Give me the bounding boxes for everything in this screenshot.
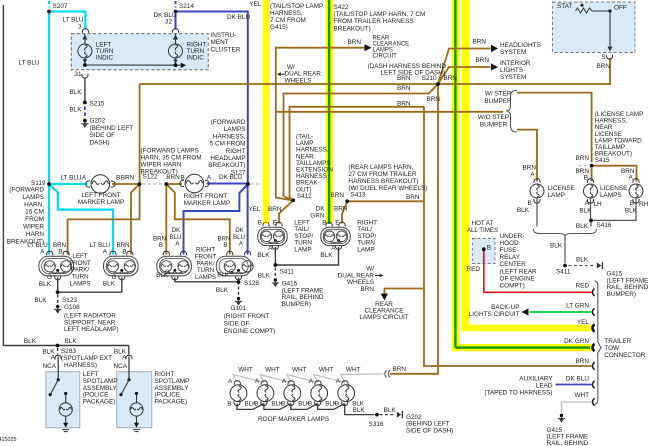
svg-text:(TAIL/STOP LAMP HARN, 7 CM: (TAIL/STOP LAMP HARN, 7 CM [334, 11, 426, 18]
svg-text:YEL: YEL [577, 319, 590, 326]
svg-text:BRN: BRN [473, 38, 487, 45]
arrow to rear clearance lamps circuit [365, 44, 372, 51]
svg-text:LIGHTS: LIGHTS [500, 67, 523, 74]
ground G108 [56, 305, 59, 308]
svg-text:BRN: BRN [597, 63, 611, 70]
svg-text:LEAD: LEAD [536, 383, 553, 390]
svg-text:AUXILIARY: AUXILIARY [519, 376, 553, 383]
wire LT BLU S207 to cluster pin 3 [49, 12, 85, 30]
svg-text:LT BLU: LT BLU [62, 17, 83, 24]
svg-text:BLK: BLK [384, 407, 397, 414]
wire BLK left edge from top to S283 [3, 5, 128, 346]
wire LT BLU dashed stub above S207 [48, 1, 50, 8]
svg-text:W/ STEP: W/ STEP [485, 91, 511, 98]
svg-text:WIPER HARN: WIPER HARN [141, 162, 182, 169]
svg-text:YEL: YEL [248, 206, 261, 213]
svg-text:BRN: BRN [397, 75, 411, 82]
ground G202 (behind dash) [83, 119, 87, 123]
lamp: license lamp RH [629, 184, 643, 198]
svg-text:BREAKOUT): BREAKOUT) [208, 162, 245, 169]
svg-text:BUMPER: BUMPER [480, 122, 508, 129]
svg-text:B: B [159, 242, 163, 249]
svg-text:ALL TIMES: ALL TIMES [467, 227, 498, 234]
svg-text:B: B [322, 219, 326, 226]
svg-text:BRN: BRN [576, 358, 590, 365]
svg-text:SIDE OF: SIDE OF [90, 132, 116, 139]
svg-text:RIGHT: RIGHT [226, 148, 246, 155]
arrow to headlights system [491, 45, 498, 52]
node S214 [174, 10, 178, 14]
svg-text:(FORWARD LAMPS: (FORWARD LAMPS [141, 148, 199, 155]
trailer pin DK GRN [592, 344, 594, 352]
svg-text:S215: S215 [90, 100, 105, 107]
headlamp switch (STAT) box top right [553, 2, 636, 53]
svg-text:BLK: BLK [69, 89, 82, 96]
inline connector WHT/BRN [385, 370, 390, 378]
svg-text:A: A [309, 378, 314, 385]
svg-text:BLK: BLK [576, 257, 589, 264]
node S122 a [138, 182, 142, 186]
svg-text:B: B [630, 200, 634, 207]
svg-text:B: B [335, 400, 339, 407]
svg-text:B: B [180, 175, 184, 182]
lamp: right turn indicator [169, 44, 183, 58]
svg-text:B: B [281, 400, 285, 407]
svg-text:G202: G202 [90, 118, 106, 125]
instrument cluster box [71, 34, 208, 70]
svg-text:BRN: BRN [397, 101, 411, 108]
wire BRN S210 diag to interior lights system [438, 67, 491, 84]
svg-text:27 CM FROM TRAILER: 27 CM FROM TRAILER [348, 171, 416, 178]
wire BRN S210 down to roof marker lamps connector [390, 84, 438, 374]
svg-text:SIDE OF DASH): SIDE OF DASH) [406, 427, 453, 434]
svg-text:CONNECTOR: CONNECTOR [604, 352, 645, 359]
wire BRN S412 to left tail lamp pin E [279, 200, 293, 223]
svg-text:BRN: BRN [397, 85, 411, 92]
wire DK BLU auxiliary lead [556, 384, 592, 386]
wire BLK roof marker lamps ground chain [237, 404, 264, 410]
svg-text:5 CM FROM: 5 CM FROM [210, 141, 246, 148]
wire BRN rear clearance circuit feed w/ dual rear wheels [276, 48, 365, 201]
wire BRN S413 tee [347, 200, 424, 202]
svg-text:LEFT HEADLAMP): LEFT HEADLAMP) [64, 326, 119, 333]
wire DK BLU S127 to right park lamps box D pin A [247, 184, 249, 255]
svg-text:BLK: BLK [625, 208, 638, 215]
connector to G415 (license grounds) [597, 263, 602, 269]
left front park/turn lamps box B [104, 256, 139, 276]
arrow inside cluster [181, 63, 186, 68]
svg-text:BLK: BLK [65, 338, 78, 345]
svg-text:BLK: BLK [217, 272, 230, 279]
wire BLK dashed S283 to left spotlamp pin A [57, 348, 59, 355]
svg-text:(TAIL/STOP LAMP: (TAIL/STOP LAMP [270, 3, 323, 10]
node S316 [375, 413, 379, 417]
svg-text:LICENSE: LICENSE [600, 185, 627, 192]
svg-text:ENGINE COMPT): ENGINE COMPT) [224, 328, 275, 335]
trailer tow connector bracket [595, 281, 602, 405]
svg-text:BACK-UP: BACK-UP [491, 304, 519, 311]
svg-text:LAMPS: LAMPS [70, 281, 91, 288]
svg-text:TOW: TOW [604, 345, 620, 352]
svg-text:BLK: BLK [517, 207, 530, 214]
svg-text:W/O STEP: W/O STEP [478, 114, 509, 121]
svg-text:COMPT): COMPT) [500, 283, 525, 290]
YEL band into left tail pin B [264, 223, 268, 225]
svg-text:B: B [254, 400, 258, 407]
svg-text:BRN: BRN [361, 286, 375, 293]
svg-text:S207: S207 [53, 3, 68, 10]
svg-text:LT BLU: LT BLU [18, 60, 39, 67]
svg-text:S413: S413 [351, 191, 366, 198]
svg-text:A: A [282, 378, 287, 385]
svg-text:B: B [227, 400, 231, 407]
svg-text:RELAY: RELAY [500, 254, 521, 261]
trailer pin BRN [592, 362, 594, 370]
svg-text:RAIL, BEHIND: RAIL, BEHIND [547, 440, 589, 446]
node S128 [237, 280, 241, 284]
trailer pin WHT [592, 398, 594, 406]
svg-text:BRN: BRN [268, 206, 282, 213]
node S411 left [274, 263, 278, 267]
wire BRN S122 to park box C pin B [165, 184, 167, 255]
svg-text:LT BLU: LT BLU [90, 242, 110, 249]
wire BLK left tail lamp A to S411 [274, 247, 276, 265]
wire BRN S415 to license lamp LH pin B [591, 168, 593, 182]
wire WHT roof marker lamps feed [233, 375, 264, 383]
arrow w/ dual rear wheels (left) [278, 73, 285, 75]
svg-text:415025: 415025 [0, 437, 17, 443]
svg-text:32: 32 [165, 18, 173, 25]
svg-text:S415: S415 [595, 157, 610, 164]
lamp: roof marker lamp 1 [230, 385, 247, 402]
svg-text:MARKER LAMP: MARKER LAMP [78, 199, 125, 206]
wire BRN w/ step bumper to S415 [517, 93, 592, 163]
svg-text:BRN: BRN [348, 39, 362, 46]
wire LT BLU S119 to park lamp B box pin A [49, 184, 113, 255]
wire BRN line S210 to S122 corner [140, 83, 438, 85]
node S210 [436, 82, 440, 86]
svg-text:CIRCUIT: CIRCUIT [373, 54, 398, 60]
wire LT GRN back-up lights circuit to trailer connector [530, 311, 592, 313]
node S123 [56, 290, 60, 294]
trailer pin LT GRN [592, 308, 594, 316]
svg-text:MENT: MENT [211, 39, 229, 46]
wire BLK ground bus to S123 [57, 291, 122, 293]
connector to G202 (roof markers) [397, 412, 402, 418]
wire BRN S210 diag to headlights system [438, 49, 491, 85]
svg-text:YEL: YEL [249, 1, 262, 8]
wire BLK park box D ground to S128 [238, 278, 240, 285]
svg-text:HARNESS,: HARNESS, [213, 133, 246, 140]
brace w/ step / w/o step bumper [506, 90, 517, 132]
node S119 [47, 182, 51, 186]
svg-text:S316: S316 [369, 421, 384, 428]
svg-text:B: B [116, 175, 120, 182]
wire BLK license LH to S416 [590, 199, 592, 219]
wire BLK license RH to S416 [593, 199, 636, 221]
wire BRN line3a S412 to trailer/rear lamps vertical [290, 107, 425, 201]
node S127 [246, 182, 250, 186]
svg-text:A: A [629, 174, 634, 181]
svg-text:B: B [584, 174, 588, 181]
svg-text:BLK: BLK [24, 338, 37, 345]
svg-text:BLK: BLK [550, 243, 563, 250]
svg-text:7 CM FROM: 7 CM FROM [270, 17, 306, 24]
svg-text:S416: S416 [597, 222, 612, 229]
lamp: roof marker lamp 3 [284, 385, 301, 402]
arrow rear clearance lamps circuit (w/ dual) [381, 294, 388, 301]
svg-text:LAMP: LAMP [294, 247, 311, 254]
svg-text:DASH): DASH) [90, 139, 110, 146]
node S412 [291, 198, 295, 202]
svg-text:INDIC: INDIC [187, 55, 205, 62]
svg-text:S411: S411 [280, 268, 295, 275]
svg-text:CENTER: CENTER [500, 261, 527, 268]
svg-text:NCA: NCA [43, 363, 57, 370]
svg-text:(BEHIND LEFT: (BEHIND LEFT [90, 125, 134, 132]
svg-text:BUMPER): BUMPER) [282, 301, 311, 308]
lamp: roof marker lamp 2 [257, 385, 274, 402]
node S411 right [563, 264, 567, 268]
svg-text:DK: DK [316, 205, 326, 212]
svg-text:PACKAGE): PACKAGE) [155, 398, 188, 405]
svg-text:WHEELS: WHEELS [285, 78, 312, 85]
right spotlamp assembly box [117, 372, 152, 428]
wire BLK brace to S411 [564, 237, 566, 264]
svg-text:BLK: BLK [258, 273, 271, 280]
svg-text:OF ENGINE: OF ENGINE [500, 275, 535, 282]
wire BRN S413 to right tail lamp pin E [342, 201, 347, 223]
wire BLK down to right spotlamp pin A [128, 346, 130, 355]
svg-text:S214: S214 [179, 3, 194, 10]
wire BLK ground bus to S128 [175, 281, 239, 283]
wire BRN branch to rear clearance lamps circuit arrow [384, 289, 424, 294]
svg-text:HARNESS BREAKOUT): HARNESS BREAKOUT) [348, 178, 418, 185]
svg-text:LAMPS CIRCUIT: LAMPS CIRCUIT [359, 314, 408, 321]
svg-text:CLUSTER: CLUSTER [211, 46, 241, 53]
svg-text:WIPER: WIPER [23, 224, 44, 231]
splice continuation S122 [143, 183, 165, 185]
svg-text:RIGHT FRONT: RIGHT FRONT [184, 193, 228, 200]
svg-text:TRAILER: TRAILER [604, 338, 631, 345]
node S416 [589, 219, 593, 223]
left front park/turn lamps box A [39, 256, 74, 276]
trailer pin RED [592, 289, 594, 297]
svg-text:BLK: BLK [320, 252, 333, 259]
svg-text:MARKER LAMP: MARKER LAMP [184, 200, 231, 207]
right spotlamp switch and lamp [128, 357, 130, 380]
svg-text:HARNESS): HARNESS) [64, 362, 97, 369]
svg-text:LAMPS: LAMPS [600, 192, 622, 199]
svg-text:WHT: WHT [265, 367, 280, 374]
svg-text:B: B [122, 249, 126, 256]
svg-text:S422: S422 [334, 4, 349, 11]
svg-text:BUMPER: BUMPER [484, 98, 512, 105]
switch S output pin [606, 55, 612, 59]
lamp: right front marker lamp [185, 174, 204, 193]
svg-text:G415): G415) [270, 24, 288, 31]
wire RED underhood fuse-relay center to trailer connector [484, 251, 592, 293]
svg-text:LT BLU: LT BLU [27, 242, 47, 249]
svg-text:BLK: BLK [103, 281, 116, 288]
svg-text:B: B [223, 242, 227, 249]
trailer pin YEL [592, 324, 594, 332]
splice continuation S415 [579, 165, 588, 167]
wire BRN w/o step bumper to license lamp A [517, 130, 537, 182]
svg-text:E: E [335, 219, 339, 226]
wire BRN S122 to park lamps B pin B [131, 184, 140, 255]
svg-text:S411: S411 [556, 269, 571, 276]
wire BLK license lamp to brace [536, 199, 538, 227]
wire BRN line2 S412 to S210 [284, 84, 439, 200]
left spotlamp assembly box [46, 372, 80, 428]
lamp: left turn indicator [78, 44, 92, 58]
svg-text:(TAPED TO HARNESS): (TAPED TO HARNESS) [484, 390, 552, 397]
svg-text:DK BLU: DK BLU [566, 376, 589, 383]
svg-text:BLK: BLK [353, 407, 366, 414]
svg-text:(SPOTLAMP EXT: (SPOTLAMP EXT [61, 355, 112, 362]
wire DK BLU S214 to S127 [176, 12, 248, 184]
wire BRN S210 to headlamp switch S pin [438, 58, 610, 84]
wire dashed blue S215 to G202 [84, 107, 86, 118]
svg-text:DK BLU: DK BLU [227, 14, 250, 21]
svg-text:A: A [82, 175, 87, 182]
right front park/turn lamps box D [216, 256, 251, 276]
wire BLK cluster pin 31 to S215 [84, 78, 86, 101]
svg-text:LEFT FRONT: LEFT FRONT [81, 192, 120, 199]
svg-text:BLK: BLK [156, 272, 169, 279]
svg-text:(LEFT REAR: (LEFT REAR [500, 268, 538, 275]
wire DK BLU dashed stub above S214 [175, 1, 177, 8]
pin 3 connector [82, 29, 88, 33]
svg-text:A: A [228, 378, 233, 385]
svg-text:WHT: WHT [292, 367, 307, 374]
svg-text:S123: S123 [62, 297, 77, 304]
svg-text:ROOF MARKER LAMPS: ROOF MARKER LAMPS [258, 416, 329, 423]
headlamp switch internals: STAT resistor and OFF contact [581, 4, 584, 7]
lamp: roof marker lamp 4 [311, 385, 328, 402]
wire BRN line3b S412 to license lamps brace [276, 111, 503, 113]
svg-text:BUMPER): BUMPER) [607, 291, 636, 298]
underhood fuse-relay center box [472, 239, 495, 264]
node S122 b [164, 182, 168, 186]
svg-text:FROM: FROM [25, 216, 44, 223]
ground G415 at trailer WHT [560, 414, 563, 417]
svg-text:BLK: BLK [579, 208, 592, 215]
svg-text:BLK: BLK [216, 287, 229, 294]
svg-text:LIGHTS CIRCUIT: LIGHTS CIRCUIT [469, 311, 520, 318]
wire BLK park lamps B ground [121, 278, 123, 293]
svg-text:INSTRU-: INSTRU- [211, 32, 237, 39]
pin 32 connector [172, 29, 178, 33]
svg-text:E: E [273, 219, 277, 226]
ground G101 [237, 297, 240, 300]
svg-text:WHT: WHT [574, 392, 589, 399]
svg-text:LICENSE: LICENSE [548, 185, 575, 192]
left spotlamp switch and lamp [57, 357, 59, 380]
svg-text:BLK: BLK [257, 252, 270, 259]
highlighted YEL wire band 4 to trailer connector [462, 0, 469, 331]
wire BLK dashed S411 to G415 [274, 268, 276, 278]
svg-text:S: S [601, 54, 605, 61]
svg-text:SYSTEM: SYSTEM [500, 49, 526, 56]
left tail/stop/turn lamp [258, 227, 287, 245]
svg-text:UNDER-: UNDER- [500, 233, 525, 240]
wire DK BLU right front marker lamp A to S127 [207, 183, 249, 185]
wire LT BLU vertical S207-S119-left park lamp A [48, 12, 50, 255]
wire WHT trailer tow connector to G415 [562, 401, 592, 403]
right front park/turn lamps box C [157, 256, 192, 276]
svg-text:LT BLU: LT BLU [60, 174, 81, 181]
svg-text:BRN: BRN [331, 192, 345, 199]
svg-text:WHT: WHT [319, 367, 334, 374]
svg-text:LT GRN: LT GRN [566, 302, 589, 309]
svg-text:BRN: BRN [476, 57, 490, 64]
svg-text:BRN: BRN [406, 194, 420, 201]
svg-text:(FORWARD: (FORWARD [9, 187, 44, 194]
wire BRN down to S122 [139, 84, 141, 182]
svg-text:B: B [308, 400, 312, 407]
wire BLK dashed S316 to G202 connector [380, 414, 396, 416]
svg-text:S127: S127 [231, 169, 246, 176]
wire DK BLU S127 to right park lamps box C pin A [184, 184, 249, 255]
svg-text:16 CM: 16 CM [25, 209, 44, 216]
svg-text:(REAR LAMPS HARN,: (REAR LAMPS HARN, [348, 164, 413, 171]
wire BLK dashed S123 to G108 [57, 295, 59, 305]
node S215 [83, 101, 87, 105]
arrow to interior lights system [491, 63, 498, 70]
svg-text:G101: G101 [231, 305, 247, 312]
svg-text:LAMP: LAMP [548, 192, 565, 199]
svg-text:G: G [229, 270, 234, 276]
svg-text:FUSE-: FUSE- [500, 247, 519, 254]
svg-text:LAMPS: LAMPS [224, 126, 246, 133]
underhood fuse-relay center pin B [482, 247, 486, 251]
wire BRN S122 to right marker lamp B [166, 183, 182, 185]
highlighted DK GRN wire band 3 to trailer connector [452, 0, 459, 351]
brace joining license lamp grounds [534, 229, 597, 237]
lamp: left front marker lamp [91, 175, 110, 194]
svg-text:BLK: BLK [34, 297, 47, 304]
svg-text:A: A [585, 200, 590, 207]
wire DK BLU S214 to cluster pin 32 [175, 12, 177, 30]
svg-text:HEADLIGHTS: HEADLIGHTS [500, 42, 541, 49]
svg-text:S210: S210 [422, 75, 437, 82]
svg-text:DK GRN: DK GRN [564, 338, 589, 345]
svg-text:INTERIOR: INTERIOR [500, 60, 531, 67]
svg-text:S128: S128 [244, 280, 259, 287]
highlighted DK GRN wire band 2 [326, 0, 333, 223]
svg-text:STAT: STAT [557, 3, 572, 10]
arrow w/ dual rear wheels (right) [375, 275, 382, 277]
wire BRN vertical A: down to S413 tee, rear clearance branch, trailer BRN [424, 107, 592, 366]
svg-text:B: B [528, 200, 532, 207]
wire BRN S122 to left park lamps A pin B [68, 184, 140, 255]
svg-text:BLK: BLK [69, 106, 82, 113]
svg-text:FROM TRAILER HARNESS: FROM TRAILER HARNESS [334, 18, 414, 25]
svg-text:HARN, 35 CM FROM: HARN, 35 CM FROM [141, 155, 202, 162]
svg-text:BRN: BRN [121, 175, 135, 182]
svg-text:OFF: OFF [614, 5, 627, 12]
svg-text:HOOD: HOOD [500, 240, 520, 247]
lamp: roof marker lamp 5 [338, 385, 355, 402]
svg-text:BRN: BRN [334, 205, 348, 212]
wire BLK S416 to brace [590, 222, 592, 227]
svg-text:A: A [255, 378, 260, 385]
ground G415 at S411 [274, 278, 277, 281]
splice continuation S127 [251, 183, 262, 185]
svg-text:LAMPS: LAMPS [22, 194, 44, 201]
